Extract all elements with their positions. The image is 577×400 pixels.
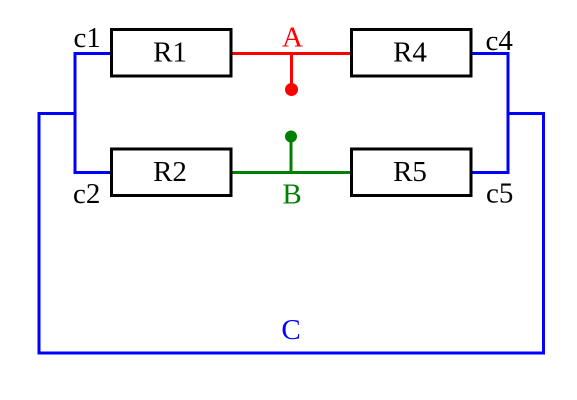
- svg-text:R4: R4: [393, 37, 427, 69]
- node B stub: [290, 137, 293, 173]
- svg-text:C: C: [281, 314, 300, 346]
- wire c5 lead: [471, 171, 510, 174]
- node B dot: [285, 131, 297, 143]
- wire net B (green) R2 to R5: [231, 171, 351, 174]
- svg-text:c2: c2: [73, 178, 100, 210]
- wire net C bottom: [38, 352, 546, 355]
- resistor R2: [112, 149, 232, 196]
- wire c4 lead: [471, 52, 510, 55]
- wire left bus vertical c1-c2: [74, 52, 77, 174]
- wire left junction to net C: [38, 112, 77, 115]
- wire c1 lead: [75, 52, 111, 55]
- node A dot: [285, 83, 298, 96]
- wire right junction to net C: [507, 112, 546, 115]
- svg-text:c4: c4: [486, 25, 514, 57]
- svg-text:A: A: [282, 22, 303, 54]
- wire net A (red) R1 to R4: [231, 52, 351, 55]
- wire right bus vertical c4-c5: [507, 52, 510, 174]
- wire net C left vertical: [38, 112, 41, 355]
- svg-text:c5: c5: [486, 178, 513, 210]
- wire net C right vertical: [542, 112, 545, 355]
- resistor R4: [352, 30, 472, 77]
- wire c2 lead: [75, 171, 111, 174]
- svg-text:B: B: [282, 179, 301, 211]
- svg-text:c1: c1: [74, 22, 101, 54]
- svg-text:R2: R2: [153, 156, 187, 188]
- resistor R1: [112, 30, 232, 77]
- svg-text:R5: R5: [393, 156, 427, 188]
- resistor R5: [352, 149, 472, 196]
- node A stub: [290, 54, 293, 90]
- svg-text:R1: R1: [153, 37, 187, 69]
